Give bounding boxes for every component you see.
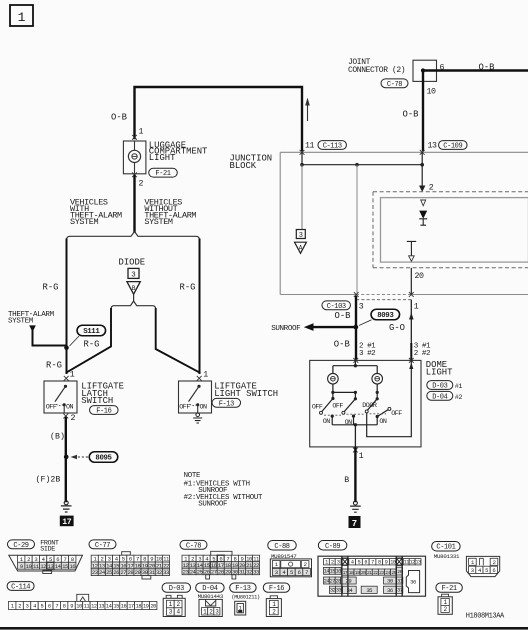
node: C-103 pin 3 — [354, 292, 364, 311]
dome switch blade 1 — [320, 399, 333, 415]
svg-text:B: B — [132, 285, 136, 292]
drawing number H1808M13AA — [466, 613, 505, 621]
svg-text:29: 29 — [225, 568, 231, 575]
label DOME LIGHT — [426, 360, 453, 377]
wire O-B right from joint connector pin 6 — [423, 63, 528, 73]
svg-text:SYSTEM: SYSTEM — [70, 217, 99, 227]
svg-text:B: B — [344, 476, 349, 485]
label DIODE — [119, 258, 146, 268]
svg-text:11: 11 — [404, 560, 410, 566]
svg-text:(MU801211): (MU801211) — [231, 595, 260, 601]
wire to sunroof with arrow — [304, 323, 356, 331]
svg-text:10: 10 — [76, 603, 82, 609]
splice label 8093 — [359, 309, 400, 325]
svg-text:24: 24 — [385, 570, 390, 576]
dome lamp bulb right — [372, 373, 383, 384]
node: pin 20 — [411, 268, 424, 295]
svg-text:19: 19 — [355, 570, 360, 576]
wire G-O down to dome light — [409, 300, 414, 359]
svg-text:6: 6 — [364, 560, 367, 566]
svg-text:C-113: C-113 — [323, 143, 342, 151]
dome switch labels — [312, 402, 402, 427]
svg-text:3: 3 — [337, 560, 340, 566]
svg-text:17: 17 — [343, 570, 348, 576]
svg-text:33: 33 — [253, 568, 259, 575]
svg-text:9: 9 — [385, 560, 388, 566]
svg-text:C-29: C-29 — [13, 542, 28, 550]
svg-text:1: 1 — [11, 603, 14, 609]
svg-text:3: 3 — [471, 567, 474, 574]
svg-text:O-B: O-B — [335, 311, 351, 321]
svg-text:25: 25 — [106, 569, 112, 576]
sunroof unit dashed boundary — [373, 192, 528, 268]
svg-text:LIGHT: LIGHT — [149, 153, 176, 163]
luggage compartment light F-21 lamp — [123, 141, 145, 174]
pin labels 2#1 3#2 — [359, 343, 376, 358]
svg-text:6: 6 — [48, 603, 51, 609]
svg-text:7: 7 — [371, 560, 374, 566]
svg-text:6: 6 — [492, 567, 495, 574]
connector label C-89 — [318, 541, 347, 551]
node: pin 11 C-113 — [300, 141, 315, 154]
label G-O — [389, 323, 405, 333]
dome light wires lamps to switches — [331, 384, 379, 400]
connector label C-113 — [318, 141, 347, 151]
svg-text:SUNROOF: SUNROOF — [198, 501, 227, 509]
connector label D-03 (pinout) — [162, 583, 191, 593]
wire diode left branch — [67, 309, 112, 373]
svg-text:33: 33 — [163, 569, 169, 576]
connector label C-77 — [89, 540, 116, 550]
connector label D-03 #1 — [427, 381, 463, 391]
svg-text:8093: 8093 — [377, 312, 394, 320]
node: pin 13 C-109 — [420, 141, 437, 154]
svg-text:19: 19 — [143, 603, 149, 609]
svg-text:33: 33 — [336, 588, 342, 594]
svg-text:32: 32 — [330, 588, 336, 594]
svg-text:ON: ON — [323, 418, 331, 426]
svg-text:D-04: D-04 — [202, 585, 217, 593]
connector C-29 pinout — [9, 555, 83, 573]
connector label C-101 — [432, 541, 461, 551]
svg-text:7: 7 — [352, 519, 357, 529]
connector label C-78 — [180, 540, 207, 550]
svg-text:D-04: D-04 — [432, 393, 447, 401]
svg-text:8: 8 — [378, 560, 381, 566]
dome light exit wire — [354, 425, 356, 447]
reference triangle A (junction block) — [295, 242, 307, 253]
svg-text:3: 3 — [359, 302, 364, 311]
connector F-16 pinout — [266, 596, 281, 617]
svg-text:23: 23 — [92, 569, 98, 576]
ground symbol 17 — [61, 501, 72, 512]
svg-text:32: 32 — [246, 568, 252, 575]
svg-text:(B): (B) — [50, 431, 65, 441]
svg-text:SYSTEM: SYSTEM — [144, 217, 173, 227]
svg-text:OFF: OFF — [391, 410, 402, 418]
connector label C-78 — [381, 79, 408, 89]
wire R-G left branch (with theft alarm) — [66, 240, 68, 374]
ground symbol 7 — [350, 501, 361, 512]
svg-text:3 #2: 3 #2 — [359, 350, 376, 358]
svg-text:7: 7 — [55, 603, 58, 609]
connector D-03 pinout — [163, 595, 185, 616]
svg-text:DOOR: DOOR — [362, 402, 377, 410]
node: C-103 pin 1 — [409, 292, 419, 311]
svg-text:3: 3 — [26, 603, 29, 609]
svg-text:S111: S111 — [83, 328, 100, 336]
splice label S111 — [70, 325, 106, 346]
junction block box — [280, 152, 528, 294]
node: dome light pin 1 — [353, 448, 364, 461]
sunroof unit inner box — [381, 198, 528, 263]
svg-text:2: 2 — [331, 560, 334, 566]
svg-text:2: 2 — [139, 179, 144, 188]
connector C-77 pinout — [91, 552, 170, 579]
connector D-04 pinout — [199, 599, 222, 616]
svg-text:12: 12 — [91, 603, 97, 609]
svg-text:5: 5 — [290, 569, 293, 576]
svg-text:2: 2 — [304, 561, 307, 568]
svg-text:16: 16 — [336, 569, 342, 575]
svg-text:2: 2 — [18, 603, 21, 609]
dome switch blade 4 — [377, 407, 391, 416]
note block — [184, 472, 263, 509]
svg-text:BLOCK: BLOCK — [230, 161, 257, 171]
svg-text:20: 20 — [361, 570, 366, 576]
junction node S111 — [64, 345, 69, 350]
label R-G (right) — [180, 282, 196, 292]
label (F)2B — [36, 474, 61, 484]
svg-text:9: 9 — [20, 563, 23, 570]
connector label D-04 #2 — [427, 391, 463, 401]
node: pin 2 of liftgate latch switch — [63, 414, 75, 423]
dome light internal supply bus — [333, 360, 377, 373]
diode in sunroof unit — [419, 200, 427, 225]
wire B to ground — [344, 448, 355, 501]
svg-text:ON: ON — [345, 419, 353, 427]
label MU801331 — [434, 553, 460, 560]
svg-text:17: 17 — [128, 603, 134, 609]
wire O-B down from joint connector pin 10 — [403, 71, 436, 151]
connector F-13 pinout — [235, 601, 246, 615]
svg-text:SWITCH: SWITCH — [81, 396, 113, 406]
connector C-89 pinout — [318, 556, 426, 596]
label JUNCTION BLOCK — [230, 153, 273, 171]
svg-text:1: 1 — [203, 371, 208, 380]
connector C-101 pinout — [466, 556, 499, 576]
liftgate light switch F-13 — [179, 381, 212, 413]
dome door contact wire to right pin — [367, 360, 414, 436]
internal wire to reference 3/A — [301, 165, 303, 229]
splice label 8095 — [71, 452, 118, 463]
label FRONT SIDE — [40, 539, 59, 553]
svg-text:36: 36 — [410, 579, 416, 586]
node: pin 2 of luggage compartment light — [132, 172, 143, 188]
svg-text:NOTE: NOTE — [184, 472, 201, 480]
label VEHICLES WITH THEFT-ALARM SYSTEM — [70, 198, 122, 228]
page bottom border — [0, 627, 528, 630]
svg-text:D-03: D-03 — [432, 383, 447, 391]
svg-text:27: 27 — [211, 568, 217, 575]
svg-text:ON: ON — [66, 404, 74, 412]
svg-text:36: 36 — [387, 587, 393, 594]
svg-text:R-G: R-G — [46, 360, 62, 370]
svg-text:R-G: R-G — [84, 339, 100, 349]
svg-text:26: 26 — [113, 569, 119, 576]
wire diode right branch — [156, 309, 200, 373]
connector label F-13 (pinout) — [230, 583, 257, 593]
svg-text:10: 10 — [390, 560, 396, 566]
ground tag 7 — [349, 516, 361, 529]
connector C-78 pinout — [182, 551, 260, 579]
wire O-B down to dome light — [355, 297, 357, 359]
wire: O-B top rail — [135, 87, 303, 150]
dome switch blade 3 door — [365, 399, 377, 413]
svg-text:22: 22 — [373, 570, 378, 576]
svg-text:6: 6 — [298, 569, 301, 576]
internal gray wire to C-103 pin 3 — [356, 165, 358, 295]
label MU801443 — [198, 593, 224, 600]
joint connector text — [348, 58, 405, 75]
svg-text:O-B: O-B — [334, 340, 350, 350]
svg-text:10: 10 — [427, 88, 436, 97]
label O-B (above sunroof splice) — [335, 311, 351, 321]
svg-text:O-B: O-B — [403, 110, 419, 120]
svg-text:1: 1 — [70, 371, 75, 380]
svg-text:R-G: R-G — [43, 282, 59, 292]
svg-text:32: 32 — [156, 569, 162, 576]
svg-text:6: 6 — [440, 64, 445, 73]
connector label F-21 (pinout) — [436, 583, 463, 593]
svg-text:35: 35 — [366, 587, 372, 594]
svg-text:14: 14 — [106, 603, 112, 609]
svg-text:H1808M13AA: H1808M13AA — [466, 613, 505, 621]
wire below diode and split to both switches — [111, 294, 156, 309]
svg-text:3: 3 — [275, 569, 278, 576]
junction block internal bus — [300, 152, 424, 166]
node: pin 1 of luggage compartment light — [132, 128, 143, 140]
svg-text:O-B: O-B — [111, 113, 127, 123]
dome lamp bulb left — [328, 373, 339, 384]
ground symbol below liftgate light switch — [193, 413, 202, 423]
label R-G (at S111) — [84, 339, 100, 349]
label THEFT-ALARM SYSTEM — [8, 311, 55, 326]
svg-text:C-78: C-78 — [186, 542, 201, 550]
svg-text:R-G: R-G — [180, 282, 196, 292]
svg-text:F-16: F-16 — [96, 408, 111, 416]
svg-text:12: 12 — [410, 560, 416, 566]
svg-text:2: 2 — [429, 183, 434, 192]
diode reference box 3 — [128, 268, 139, 279]
svg-text:4: 4 — [351, 560, 354, 566]
page number box 1 — [10, 5, 33, 26]
wire from luggage light to split — [133, 176, 135, 232]
label LIFTGATE LATCH SWITCH — [81, 382, 124, 407]
svg-text:OFF: OFF — [179, 404, 190, 412]
svg-text:13: 13 — [428, 141, 437, 150]
dome switch ON contacts and ground bus — [331, 415, 379, 427]
svg-text:C-109: C-109 — [443, 143, 462, 151]
svg-text:14: 14 — [324, 569, 330, 575]
connector label F-13 — [212, 398, 241, 408]
svg-text:13: 13 — [99, 603, 105, 609]
node: pin 1 of liftgate latch switch — [64, 371, 75, 381]
svg-text:9: 9 — [70, 603, 73, 609]
svg-text:C-78: C-78 — [387, 81, 402, 89]
direction arrow up (beside pin 11 wire) — [305, 98, 310, 122]
label R-G (above latch switch) — [46, 360, 62, 370]
svg-text:2 #2: 2 #2 — [414, 350, 431, 358]
svg-text:24: 24 — [324, 578, 330, 584]
svg-text:LIGHT SWITCH: LIGHT SWITCH — [214, 389, 278, 399]
svg-text:16: 16 — [121, 603, 127, 609]
wire split bracket (with / without theft-alarm) — [67, 232, 200, 241]
junction node 8093 — [353, 325, 358, 330]
connector label F-16 — [90, 406, 119, 416]
connector F-21 pinout — [438, 594, 452, 614]
node: dome light right pin — [409, 358, 414, 363]
junction node 8095 — [64, 455, 69, 460]
svg-text:O-B: O-B — [479, 63, 495, 73]
liftgate latch switch F-16 — [44, 381, 77, 413]
label O-B (top left wire) — [111, 113, 127, 123]
reference box 3 (junction block) — [296, 230, 305, 240]
svg-text:#2: #2 — [455, 394, 463, 402]
svg-text:(F)2B: (F)2B — [36, 474, 61, 484]
svg-text:8: 8 — [63, 603, 66, 609]
svg-text:G-O: G-O — [389, 323, 405, 333]
dome light box — [310, 360, 421, 447]
svg-text:27: 27 — [120, 569, 126, 576]
svg-text:15: 15 — [330, 569, 336, 575]
svg-text:CONNECTOR (2): CONNECTOR (2) — [348, 66, 405, 75]
svg-text:13: 13 — [48, 563, 54, 570]
svg-text:ON: ON — [200, 404, 208, 412]
ground tag 17 — [60, 516, 74, 528]
node: pin 1 of liftgate light switch — [197, 371, 209, 381]
svg-text:F-16: F-16 — [269, 585, 284, 593]
connector C-88 pinout — [270, 559, 311, 577]
label MU801547 — [271, 553, 297, 560]
svg-text:MU801331: MU801331 — [434, 553, 460, 560]
diode triangle symbol B — [127, 282, 140, 295]
svg-text:C-101: C-101 — [436, 544, 455, 552]
svg-text:28: 28 — [128, 569, 134, 576]
svg-text:#1: #1 — [455, 383, 463, 391]
svg-text:2: 2 — [493, 559, 496, 566]
svg-text:SUNROOF: SUNROOF — [271, 325, 301, 333]
svg-text:1: 1 — [139, 128, 144, 137]
svg-text:16: 16 — [69, 563, 75, 570]
svg-text:SIDE: SIDE — [40, 545, 55, 553]
dashed connector line C-103 — [356, 299, 411, 301]
svg-text:15: 15 — [113, 603, 119, 609]
wire latch switch to body ground — [65, 418, 67, 501]
svg-text:28: 28 — [218, 568, 224, 575]
label MU801211 — [231, 595, 260, 601]
label LUGGAGE COMPARTMENT LIGHT — [149, 140, 208, 163]
internal wire down to sunroof unit pin 2 — [419, 165, 434, 193]
pin labels 3#1 2#2 — [414, 343, 431, 358]
svg-text:OFF: OFF — [332, 402, 343, 410]
svg-text:1: 1 — [414, 302, 419, 311]
svg-text:1: 1 — [359, 452, 364, 461]
svg-text:4: 4 — [33, 603, 36, 609]
pin 20 internal symbol — [407, 241, 416, 261]
connector label F-21 — [149, 168, 178, 178]
svg-text:1: 1 — [18, 10, 26, 25]
svg-text:17: 17 — [62, 518, 71, 527]
connector label F-16 (pinout) — [263, 583, 290, 593]
svg-text:7: 7 — [305, 569, 308, 576]
label SUNROOF — [271, 325, 301, 333]
svg-text:1: 1 — [325, 560, 328, 566]
svg-text:5: 5 — [41, 603, 44, 609]
wire R-G right branch (without theft alarm) — [199, 240, 201, 374]
svg-text:20: 20 — [415, 272, 424, 281]
dome switch blade 2 — [342, 399, 356, 415]
dome switch linkage dashes — [324, 414, 386, 415]
joint connector box — [413, 60, 437, 81]
arrow to theft-alarm system — [29, 325, 66, 345]
svg-text:SYSTEM: SYSTEM — [8, 317, 34, 325]
node inside joint connector — [421, 68, 425, 72]
svg-text:C-114: C-114 — [11, 584, 30, 592]
svg-text:C-77: C-77 — [95, 542, 110, 550]
connector C-114 pinout — [9, 594, 157, 609]
svg-text:18: 18 — [349, 570, 354, 576]
svg-text:F-21: F-21 — [155, 170, 170, 178]
svg-text:A: A — [299, 245, 303, 252]
svg-text:OFF: OFF — [46, 404, 57, 412]
svg-text:C-89: C-89 — [325, 543, 340, 551]
connector label C-114 — [7, 582, 34, 592]
svg-text:11: 11 — [84, 603, 90, 609]
svg-text:15: 15 — [62, 563, 68, 570]
svg-text:C-103: C-103 — [327, 303, 346, 311]
svg-text:27: 27 — [330, 578, 336, 584]
svg-text:LIGHT: LIGHT — [426, 368, 453, 378]
svg-text:DIODE: DIODE — [119, 258, 146, 268]
label LIFTGATE LIGHT SWITCH — [214, 382, 278, 399]
connector label C-109 — [439, 141, 468, 151]
svg-text:3: 3 — [131, 272, 136, 280]
svg-text:5: 5 — [358, 560, 361, 566]
svg-text:23: 23 — [379, 570, 384, 576]
label VEHICLES WITHOUT THEFT-ALARM SYSTEM — [144, 198, 196, 228]
svg-text:18: 18 — [136, 603, 142, 609]
svg-text:2: 2 — [71, 414, 76, 423]
svg-text:8095: 8095 — [95, 455, 112, 463]
label (B) — [50, 431, 65, 441]
connector label C-29 — [8, 540, 35, 550]
label O-B (lower) — [334, 340, 350, 350]
svg-text:F-13: F-13 — [219, 400, 234, 408]
svg-text:23: 23 — [183, 568, 189, 575]
svg-text:3: 3 — [299, 232, 303, 240]
svg-text:ON: ON — [379, 418, 387, 426]
svg-text:D-03: D-03 — [169, 585, 184, 593]
svg-text:13: 13 — [415, 560, 421, 566]
connector label C-103 — [322, 301, 351, 311]
svg-text:5: 5 — [485, 567, 488, 574]
svg-text:20: 20 — [150, 603, 156, 609]
svg-text:F-13: F-13 — [235, 585, 250, 593]
svg-text:25: 25 — [197, 568, 203, 575]
svg-text:21: 21 — [367, 570, 372, 576]
svg-text:OFF: OFF — [312, 404, 323, 412]
